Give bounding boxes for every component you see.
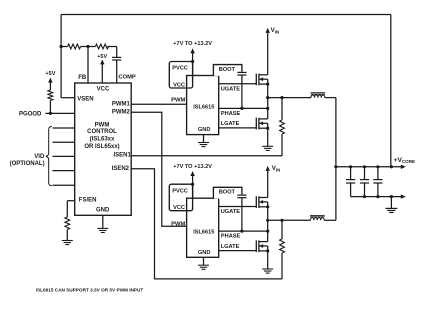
wire: FS/EN pin wire [67,201,74,217]
power: VIN arrow phase 1 [266,27,280,75]
wire: ISEN2 sense wire [131,169,282,279]
wire: L2 to VCORE rail [324,219,336,221]
label: PVCC pin driver 2 [172,188,188,194]
wire: VID input lines [53,128,75,185]
wire: PGOOD pin wire [46,112,75,114]
svg-text:COMP: COMP [118,75,136,81]
svg-text:UGATE: UGATE [221,209,241,215]
label: ISEN2 pin [112,166,130,172]
node: phase 2 inductor junction [266,219,269,222]
capacitor: bootstrap cap driver 2 [237,195,246,198]
wire: FS/EN R to ground [66,230,68,241]
wire: output ground stem [390,197,392,209]
wire: boot cap to phase node driver 1 [241,75,243,108]
svg-text:ISL6615: ISL6615 [193,230,214,236]
capacitor: output bulk cap 3 [373,167,382,197]
label: bottom note [36,287,144,292]
label: VID [34,154,45,160]
label: U1 name line4 [84,144,119,150]
wire: output ground rail [351,196,402,198]
node: ground rail junction 3 [390,195,393,198]
wire: controller GND stem [102,215,104,228]
node: inductor rail junction [334,165,337,168]
ground: FS/EN resistor ground [62,241,73,245]
label: BOOT pin driver 2 [219,190,236,196]
power: +5V to VCC arrow [97,54,107,83]
ground: driver 2 ground [198,265,209,269]
wire: PHASE wire driver 1 [219,107,270,110]
svg-text:PHASE: PHASE [221,111,241,117]
resistor: FB divider R (left) [68,44,81,49]
label: PVCC pin driver 1 [172,66,188,72]
capacitor: output bulk cap 1 [346,167,355,197]
label: ISL6615 driver 1 [193,104,214,110]
ground: driver 1 ground [198,143,209,147]
svg-text:BOOT: BOOT [219,190,236,196]
driver U3: PVCC/VCC pin box [169,184,192,211]
svg-text:PGOOD: PGOOD [19,111,42,117]
resistor: ISEN1 sense R [280,98,285,156]
ground: phase 1 power ground [262,146,273,150]
node: phase 1 sense tap [280,96,283,99]
resistor: FB divider R (right) [95,44,108,49]
wire: LGATE wire driver 1 [219,127,257,129]
label: (OPTIONAL) [10,161,45,167]
label: LGATE pin driver 1 [221,121,240,127]
label: VCC pin driver 2 [173,205,185,211]
svg-text:ISEN1: ISEN1 [113,152,131,158]
ground: controller ground [97,228,108,232]
svg-text:+7V TO +13.2V: +7V TO +13.2V [173,164,212,170]
label: VSEN pin [77,96,93,102]
node: ground rail junction 2 [376,195,379,198]
wire: Q2 source to ground [267,128,269,146]
wire: pull-up to PGOOD node [49,101,51,114]
svg-text:(OPTIONAL): (OPTIONAL) [10,161,45,167]
resistor: PGOOD pull-up R [48,90,53,101]
svg-text:LGATE: LGATE [221,121,240,127]
svg-text:PWM: PWM [171,221,185,227]
wire: PWM1 to driver 1 [131,103,186,105]
label: UGATE pin driver 1 [221,86,241,92]
label: +VCORE [394,157,416,164]
svg-text:UGATE: UGATE [221,86,241,92]
power: +7V TO +13.2V supply driver 2 [173,164,212,198]
transistor Q2: low-side MOSFET phase 1 [256,118,269,130]
wire: L1 to VCORE rail [325,98,336,221]
transistor Q4: low-side MOSFET phase 2 [256,240,269,252]
op-amp/controller U1: PWM CONTROL box [75,83,132,215]
wire: right feedback vertical [390,15,392,167]
label: PGOOD [19,111,42,117]
label: GND pin [96,207,110,213]
svg-text:FB: FB [78,75,87,81]
svg-text:PHASE: PHASE [221,234,241,240]
svg-text:ISL6615: ISL6615 [193,104,214,110]
label: PWM2 pin [112,110,131,116]
capacitor: output bulk cap 2 [360,167,369,197]
wire: VSEN pin wire [61,97,75,99]
svg-text:PWM1: PWM1 [112,101,131,107]
power: +7V TO +13.2V supply driver 1 [173,41,212,75]
wire: UGATE wire driver 1 [219,83,257,85]
wire: top feedback rail (VCORE to FB divider) [61,14,391,16]
node: PGOOD junction [49,112,52,115]
svg-text:BOOT: BOOT [219,67,236,73]
svg-text:PWM: PWM [95,122,110,128]
wire: FB divider horizontal [61,46,117,48]
driver U3: BOOT pin box [213,187,242,198]
arrow: output return [401,194,406,198]
label: UGATE pin driver 2 [221,209,241,215]
label: GND pin driver 1 [198,127,211,133]
wire: phase 2 node vertical [267,207,269,242]
wire: driver 1 GND stem [203,135,205,143]
svg-text:VCC: VCC [173,205,185,211]
transistor Q1: high-side MOSFET phase 1 [256,74,269,86]
wire: phase 1 node vertical [267,84,269,119]
node: phase 2 sense tap [280,219,283,222]
svg-text:FS/EN: FS/EN [79,197,97,203]
svg-text:GND: GND [96,207,110,213]
resistor: FS/EN frequency-set R [65,217,70,230]
driver U2 ISL6615: main box [187,76,219,135]
wire: left vertical from top rail to VSEN [60,15,62,98]
wire: Q4 source to ground [267,251,269,269]
node: rail cap 1 top junction [349,165,352,168]
svg-text:PWM2: PWM2 [112,110,131,116]
label: GND pin driver 2 [198,250,211,256]
wire: PHASE wire driver 2 [219,230,270,233]
label: U1 name line2 [87,129,117,135]
power: +5V PGOOD pull-up [45,71,55,90]
label: PWM1 pin [112,101,131,107]
wire: UGATE wire driver 2 [219,206,257,208]
svg-text:PVCC: PVCC [172,66,188,72]
driver U2: PVCC/VCC pin box [169,62,192,89]
wire: FB pin vertical [87,47,89,84]
svg-text:LGATE: LGATE [221,244,240,250]
svg-text:VCC: VCC [173,82,185,88]
label: VCC pin driver 1 [173,82,185,88]
node: rail cap 3 top junction [376,165,379,168]
node: ground rail junction 1 [363,195,366,198]
label: U1 name line1 [95,122,110,128]
svg-text:VCC: VCC [97,86,110,92]
driver U3 ISL6615: main box [187,198,219,257]
ground: output ground [385,208,397,212]
label: COMP pin [118,75,136,81]
label: ISEN1 pin [113,152,131,158]
wire: ISEN1 sense wire [131,155,282,157]
label: U1 name line3 [90,137,115,143]
wire: phase 2 node to inductor [268,219,311,221]
capacitor: COMP compensation cap [112,47,121,84]
svg-text:PWM: PWM [171,97,185,103]
svg-text:GND: GND [198,127,211,133]
svg-text:VSEN: VSEN [77,96,93,102]
svg-text:OR ISL65xx): OR ISL65xx) [84,144,119,150]
node: FB tap junction [86,45,89,48]
svg-text:+7V TO +13.2V: +7V TO +13.2V [173,41,212,47]
wire: phase 1 node to inductor [268,97,311,99]
capacitor: bootstrap cap driver 1 [237,72,246,75]
svg-text:CONTROL: CONTROL [87,129,117,135]
node: feedback rail junction [390,165,393,168]
label: PHASE pin driver 2 [221,234,241,240]
label: FS/EN pin [79,197,97,203]
brace: VID bracket [46,126,52,185]
label: FB pin [78,75,87,81]
svg-text:+5V: +5V [45,71,55,77]
label: LGATE pin driver 2 [221,244,240,250]
wire: LGATE wire driver 2 [219,250,257,252]
svg-text:VID: VID [34,154,45,160]
wire: PWM2 to driver 2 [131,112,186,226]
wire: driver 2 GND stem [203,257,205,265]
inductor L2: phase 2 output inductor [310,215,325,220]
transistor Q3: high-side MOSFET phase 2 [256,196,269,208]
driver U2: BOOT pin box [213,65,242,76]
label: PWM pin driver 2 [171,221,185,227]
label: ISL6615 driver 2 [193,230,214,236]
arrow: +VCORE output [401,165,406,169]
svg-text:+5V: +5V [97,54,107,60]
svg-text:(ISL63xx: (ISL63xx [90,137,115,143]
power: VIN arrow phase 2 [266,165,281,198]
node: phase 1 inductor junction [266,96,269,99]
label: PWM pin driver 1 [171,97,185,103]
resistor: ISEN2 sense R [280,220,285,279]
svg-text:ISEN2: ISEN2 [112,166,130,172]
node: FB divider top junction [60,45,63,48]
label: VCC pin [97,86,110,92]
svg-text:PVCC: PVCC [172,188,188,194]
inductor L1: phase 1 output inductor [311,93,326,98]
wire: boot cap to phase node driver 2 [241,198,243,231]
ground: phase 2 power ground [262,269,273,273]
svg-text:GND: GND [198,250,211,256]
wire: +VCORE rail [336,166,401,168]
label: BOOT pin driver 1 [219,67,236,73]
label: PHASE pin driver 1 [221,111,241,117]
svg-text:ISL6615 CAN SUPPORT 3.3V OR 5V: ISL6615 CAN SUPPORT 3.3V OR 5V PWM INPUT [36,287,144,292]
node: rail cap 2 top junction [363,165,366,168]
